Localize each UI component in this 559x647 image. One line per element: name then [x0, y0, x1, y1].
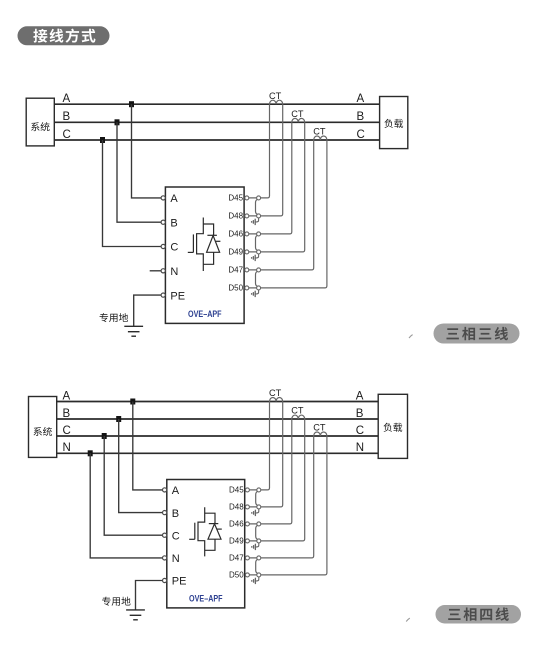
junction dot on line B: [115, 119, 120, 125]
svg-text:B: B: [357, 111, 365, 123]
svg-text:C: C: [170, 242, 178, 254]
wire terminal D50 to CT: [249, 436, 327, 575]
svg-text:A: A: [356, 390, 364, 402]
svg-text:CT: CT: [269, 388, 282, 398]
wire terminal D47 to CT: [249, 140, 314, 270]
load box (负载): [378, 394, 407, 458]
terminal D50 outer pin circle: [257, 573, 261, 577]
terminal D45 pin circle on box edge: [245, 196, 249, 200]
label 专用地: [102, 597, 130, 606]
wire terminal D48 to CT: [249, 104, 283, 216]
svg-text:D49: D49: [229, 537, 244, 546]
junction dot on line C: [100, 137, 105, 143]
ground (secondary earth at D48): [252, 218, 259, 225]
svg-text:D46: D46: [229, 520, 244, 529]
wire PE to dedicated earth: [134, 295, 162, 326]
wire from line A to APF terminal A: [132, 104, 162, 198]
ground (secondary earth at D50): [252, 290, 259, 297]
svg-text:B: B: [356, 408, 364, 420]
terminal B (pin circle): [161, 220, 165, 224]
wire from line B to APF terminal B: [119, 419, 163, 513]
svg-text:A: A: [63, 390, 71, 402]
wire link D47-D50 secondary pair: [256, 271, 258, 286]
svg-text:PE: PE: [170, 290, 185, 302]
junction dot on line C: [102, 433, 107, 439]
svg-text:CT: CT: [291, 109, 304, 119]
system box (系统): [29, 397, 57, 458]
terminal D48 pin circle on box edge: [245, 505, 249, 509]
wire from line C to APF terminal C: [104, 436, 162, 535]
svg-text:A: A: [357, 93, 365, 105]
wire from line N to APF terminal N: [90, 453, 162, 558]
terminal N (pin circle): [161, 269, 165, 273]
svg-text:D46: D46: [228, 230, 243, 239]
svg-text:B: B: [63, 408, 71, 420]
terminal D48 outer pin circle: [257, 505, 261, 509]
svg-text:D47: D47: [229, 554, 244, 563]
ground (secondary earth at D49): [252, 543, 259, 550]
wire stub at terminal N (unconnected): [150, 270, 162, 272]
terminal D50 outer pin circle: [257, 286, 261, 290]
svg-text:CT: CT: [313, 423, 326, 433]
wire terminal D46 to CT: [249, 419, 291, 524]
terminal D46 pin circle on box edge: [245, 232, 249, 236]
terminal B (pin circle): [163, 510, 167, 514]
wire from line C to APF terminal C: [103, 140, 162, 247]
svg-text:D45: D45: [229, 486, 244, 495]
CT current transformer CT3 on line C: [314, 432, 327, 436]
wire bus line A: [57, 401, 379, 403]
CT current transformer CT2 on line B: [292, 415, 305, 419]
CT current transformer CT1 on line A: [270, 100, 283, 104]
svg-text:CT: CT: [313, 127, 326, 137]
wire bus line C: [57, 435, 379, 437]
terminal D46 outer pin circle: [257, 522, 261, 526]
wire from line B to APF terminal B: [117, 122, 161, 222]
svg-text:D49: D49: [228, 248, 243, 257]
wire bus line A: [54, 103, 379, 105]
wire terminal D49 to CT: [249, 122, 305, 252]
stray pen mark 2: [406, 618, 410, 621]
ground (dedicated earth 专用地): [124, 326, 143, 336]
wire terminal D45 to CT: [249, 104, 270, 198]
terminal PE (pin circle): [163, 578, 167, 582]
svg-text:B: B: [170, 217, 177, 229]
wire terminal D48 to CT: [249, 402, 282, 507]
label 专用地: [100, 313, 128, 322]
terminal D46 pin circle on box edge: [245, 522, 249, 526]
wire bus line B: [54, 121, 379, 123]
svg-text:CT: CT: [269, 91, 282, 101]
junction dot on line B: [116, 416, 121, 422]
terminal C (pin circle): [161, 244, 165, 248]
transistor Q1 IGBT with anti-parallel diode: [188, 218, 221, 272]
terminal D47 outer pin circle: [257, 556, 261, 560]
terminal D47 pin circle on box edge: [245, 556, 249, 560]
terminal D49 outer pin circle: [257, 539, 261, 543]
svg-text:B: B: [63, 111, 71, 123]
junction dot on line N: [88, 450, 93, 456]
junction dot on line A: [130, 399, 135, 405]
wire PE to dedicated earth: [136, 581, 163, 610]
wire link D46-D49 secondary pair: [256, 525, 258, 539]
wire terminal D50 to CT: [249, 140, 327, 288]
svg-text:A: A: [172, 485, 180, 497]
ground (secondary earth at D50): [252, 577, 259, 584]
svg-text:OVE–APF: OVE–APF: [188, 309, 222, 319]
svg-text:N: N: [170, 266, 178, 278]
svg-text:D45: D45: [228, 194, 243, 203]
stray pen mark 1: [409, 335, 413, 338]
terminal N (pin circle): [163, 556, 167, 560]
CT current transformer CT2 on line B: [292, 118, 305, 122]
badge 三相三线: [434, 324, 520, 344]
header badge 接线方式: [18, 26, 110, 45]
wire terminal D49 to CT: [249, 419, 304, 541]
svg-text:C: C: [356, 425, 364, 437]
terminal D45 outer pin circle: [257, 488, 261, 492]
wire from line A to APF terminal A: [133, 402, 163, 490]
system box (系统): [26, 98, 54, 146]
terminal D50 pin circle on box edge: [245, 286, 249, 290]
terminal D45 outer pin circle: [257, 196, 261, 200]
wire link D47-D50 secondary pair: [256, 559, 258, 573]
wire link D45-D48 secondary pair: [256, 199, 258, 214]
terminal D50 pin circle on box edge: [245, 573, 249, 577]
wire bus line B: [57, 418, 379, 420]
terminal D47 pin circle on box edge: [245, 268, 249, 272]
terminal C (pin circle): [163, 533, 167, 537]
svg-text:C: C: [63, 425, 71, 437]
svg-text:C: C: [63, 129, 71, 141]
svg-text:OVE–APF: OVE–APF: [189, 593, 223, 603]
terminal D49 pin circle on box edge: [245, 250, 249, 254]
svg-text:A: A: [170, 193, 178, 205]
ground (secondary earth at D48): [252, 509, 259, 516]
svg-text:N: N: [63, 442, 71, 454]
badge 三相四线: [436, 605, 522, 624]
junction dot on line A: [129, 101, 134, 107]
CT current transformer CT1 on line A: [270, 397, 283, 401]
svg-text:CT: CT: [291, 406, 304, 416]
terminal D49 pin circle on box edge: [245, 539, 249, 543]
terminal PE (pin circle): [161, 293, 165, 297]
svg-text:D50: D50: [228, 284, 243, 293]
op-amp box U1 OVE-APF active power filter: [167, 480, 245, 608]
svg-text:D47: D47: [228, 266, 243, 275]
svg-text:B: B: [172, 508, 179, 520]
svg-text:D50: D50: [229, 571, 244, 580]
terminal D47 outer pin circle: [257, 268, 261, 272]
CT current transformer CT3 on line C: [314, 136, 327, 140]
ground (dedicated earth 专用地): [126, 610, 145, 620]
wire link D45-D48 secondary pair: [256, 491, 258, 505]
svg-text:N: N: [172, 553, 180, 565]
load box (负载): [380, 97, 408, 149]
svg-text:C: C: [172, 530, 180, 542]
op-amp box U1 OVE-APF active power filter: [165, 187, 244, 323]
svg-text:C: C: [357, 129, 365, 141]
terminal D46 outer pin circle: [257, 232, 261, 236]
svg-text:N: N: [356, 442, 364, 454]
terminal A (pin circle): [163, 488, 167, 492]
svg-text:D48: D48: [228, 212, 243, 221]
wire bus line N: [57, 452, 379, 454]
wire terminal D46 to CT: [249, 122, 292, 234]
wire bus line C: [54, 139, 379, 141]
terminal A (pin circle): [161, 196, 165, 200]
terminal D48 outer pin circle: [257, 214, 261, 218]
svg-text:A: A: [63, 93, 71, 105]
wire link D46-D49 secondary pair: [256, 235, 258, 250]
terminal D49 outer pin circle: [257, 250, 261, 254]
svg-text:PE: PE: [172, 576, 187, 588]
wire terminal D47 to CT: [249, 436, 313, 558]
wire terminal D45 to CT: [249, 402, 269, 490]
terminal D45 pin circle on box edge: [245, 488, 249, 492]
transistor Q1 IGBT with anti-parallel diode: [189, 507, 222, 556]
svg-text:D48: D48: [229, 503, 244, 512]
terminal D48 pin circle on box edge: [245, 214, 249, 218]
ground (secondary earth at D49): [252, 254, 259, 261]
